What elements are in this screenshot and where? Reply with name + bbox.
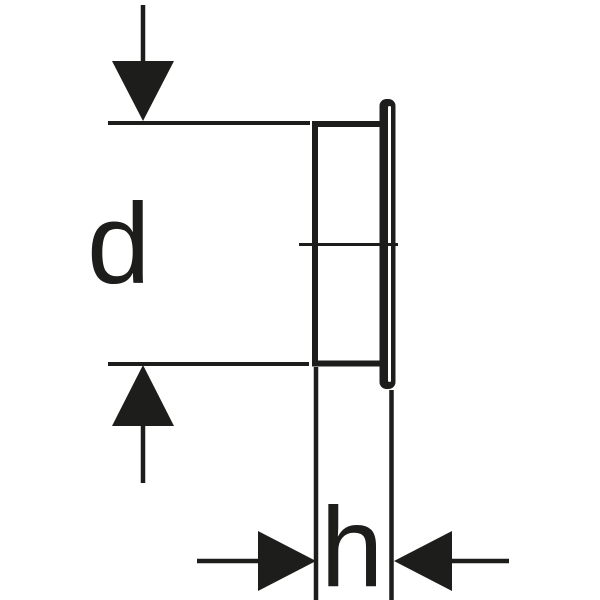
svg-text:d: d (87, 181, 150, 308)
centerline (299, 243, 398, 246)
dimension line d bottom (108, 362, 309, 366)
arrow up stem (141, 425, 146, 483)
flange bar inner white line (388, 106, 391, 382)
plate body (disc side view) (315, 124, 383, 364)
arrow left head (394, 531, 452, 591)
arrow up head (112, 365, 174, 426)
arrow right stem (197, 559, 262, 564)
dimension line d top (108, 121, 310, 125)
extension line right (389, 390, 394, 600)
flange bar (380, 99, 396, 389)
svg-text:h: h (321, 484, 384, 600)
arrow right head (258, 531, 316, 591)
arrow down head (112, 61, 174, 121)
arrow down stem (141, 5, 146, 62)
arrow left stem (448, 559, 509, 564)
extension line left (314, 367, 319, 600)
